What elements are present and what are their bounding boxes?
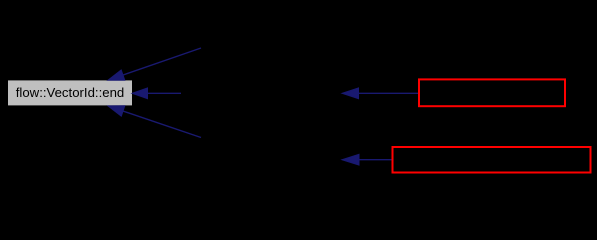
arrowhead — [108, 106, 125, 116]
node R2: truncated caller (red outlined box, lower right) — [393, 147, 591, 173]
edge from red truncated node R2 to hidden node N3 — [342, 154, 392, 165]
edge from hidden caller node N3 (bottom) to flow::VectorId::end — [108, 106, 201, 138]
edge from red truncated node R1 to hidden node N2 — [342, 88, 419, 99]
wire — [359, 92, 419, 94]
wire — [123, 111, 201, 138]
arrowhead — [108, 70, 125, 80]
wire — [148, 92, 182, 94]
edge from hidden caller node N1 (top) to flow::VectorId::end — [108, 48, 201, 80]
wire — [123, 48, 201, 75]
svg-text:flow::VectorId::end: flow::VectorId::end — [16, 85, 125, 100]
edge from hidden caller node N2 (middle) to flow::VectorId::end — [132, 88, 181, 99]
arrowhead — [342, 88, 359, 99]
arrowhead — [132, 88, 148, 99]
node R1: truncated caller (red outlined box, upper right) — [419, 79, 565, 106]
arrowhead — [342, 154, 359, 165]
wire — [359, 159, 392, 161]
node flow::VectorId::end (current function, grey box) — [8, 80, 133, 106]
